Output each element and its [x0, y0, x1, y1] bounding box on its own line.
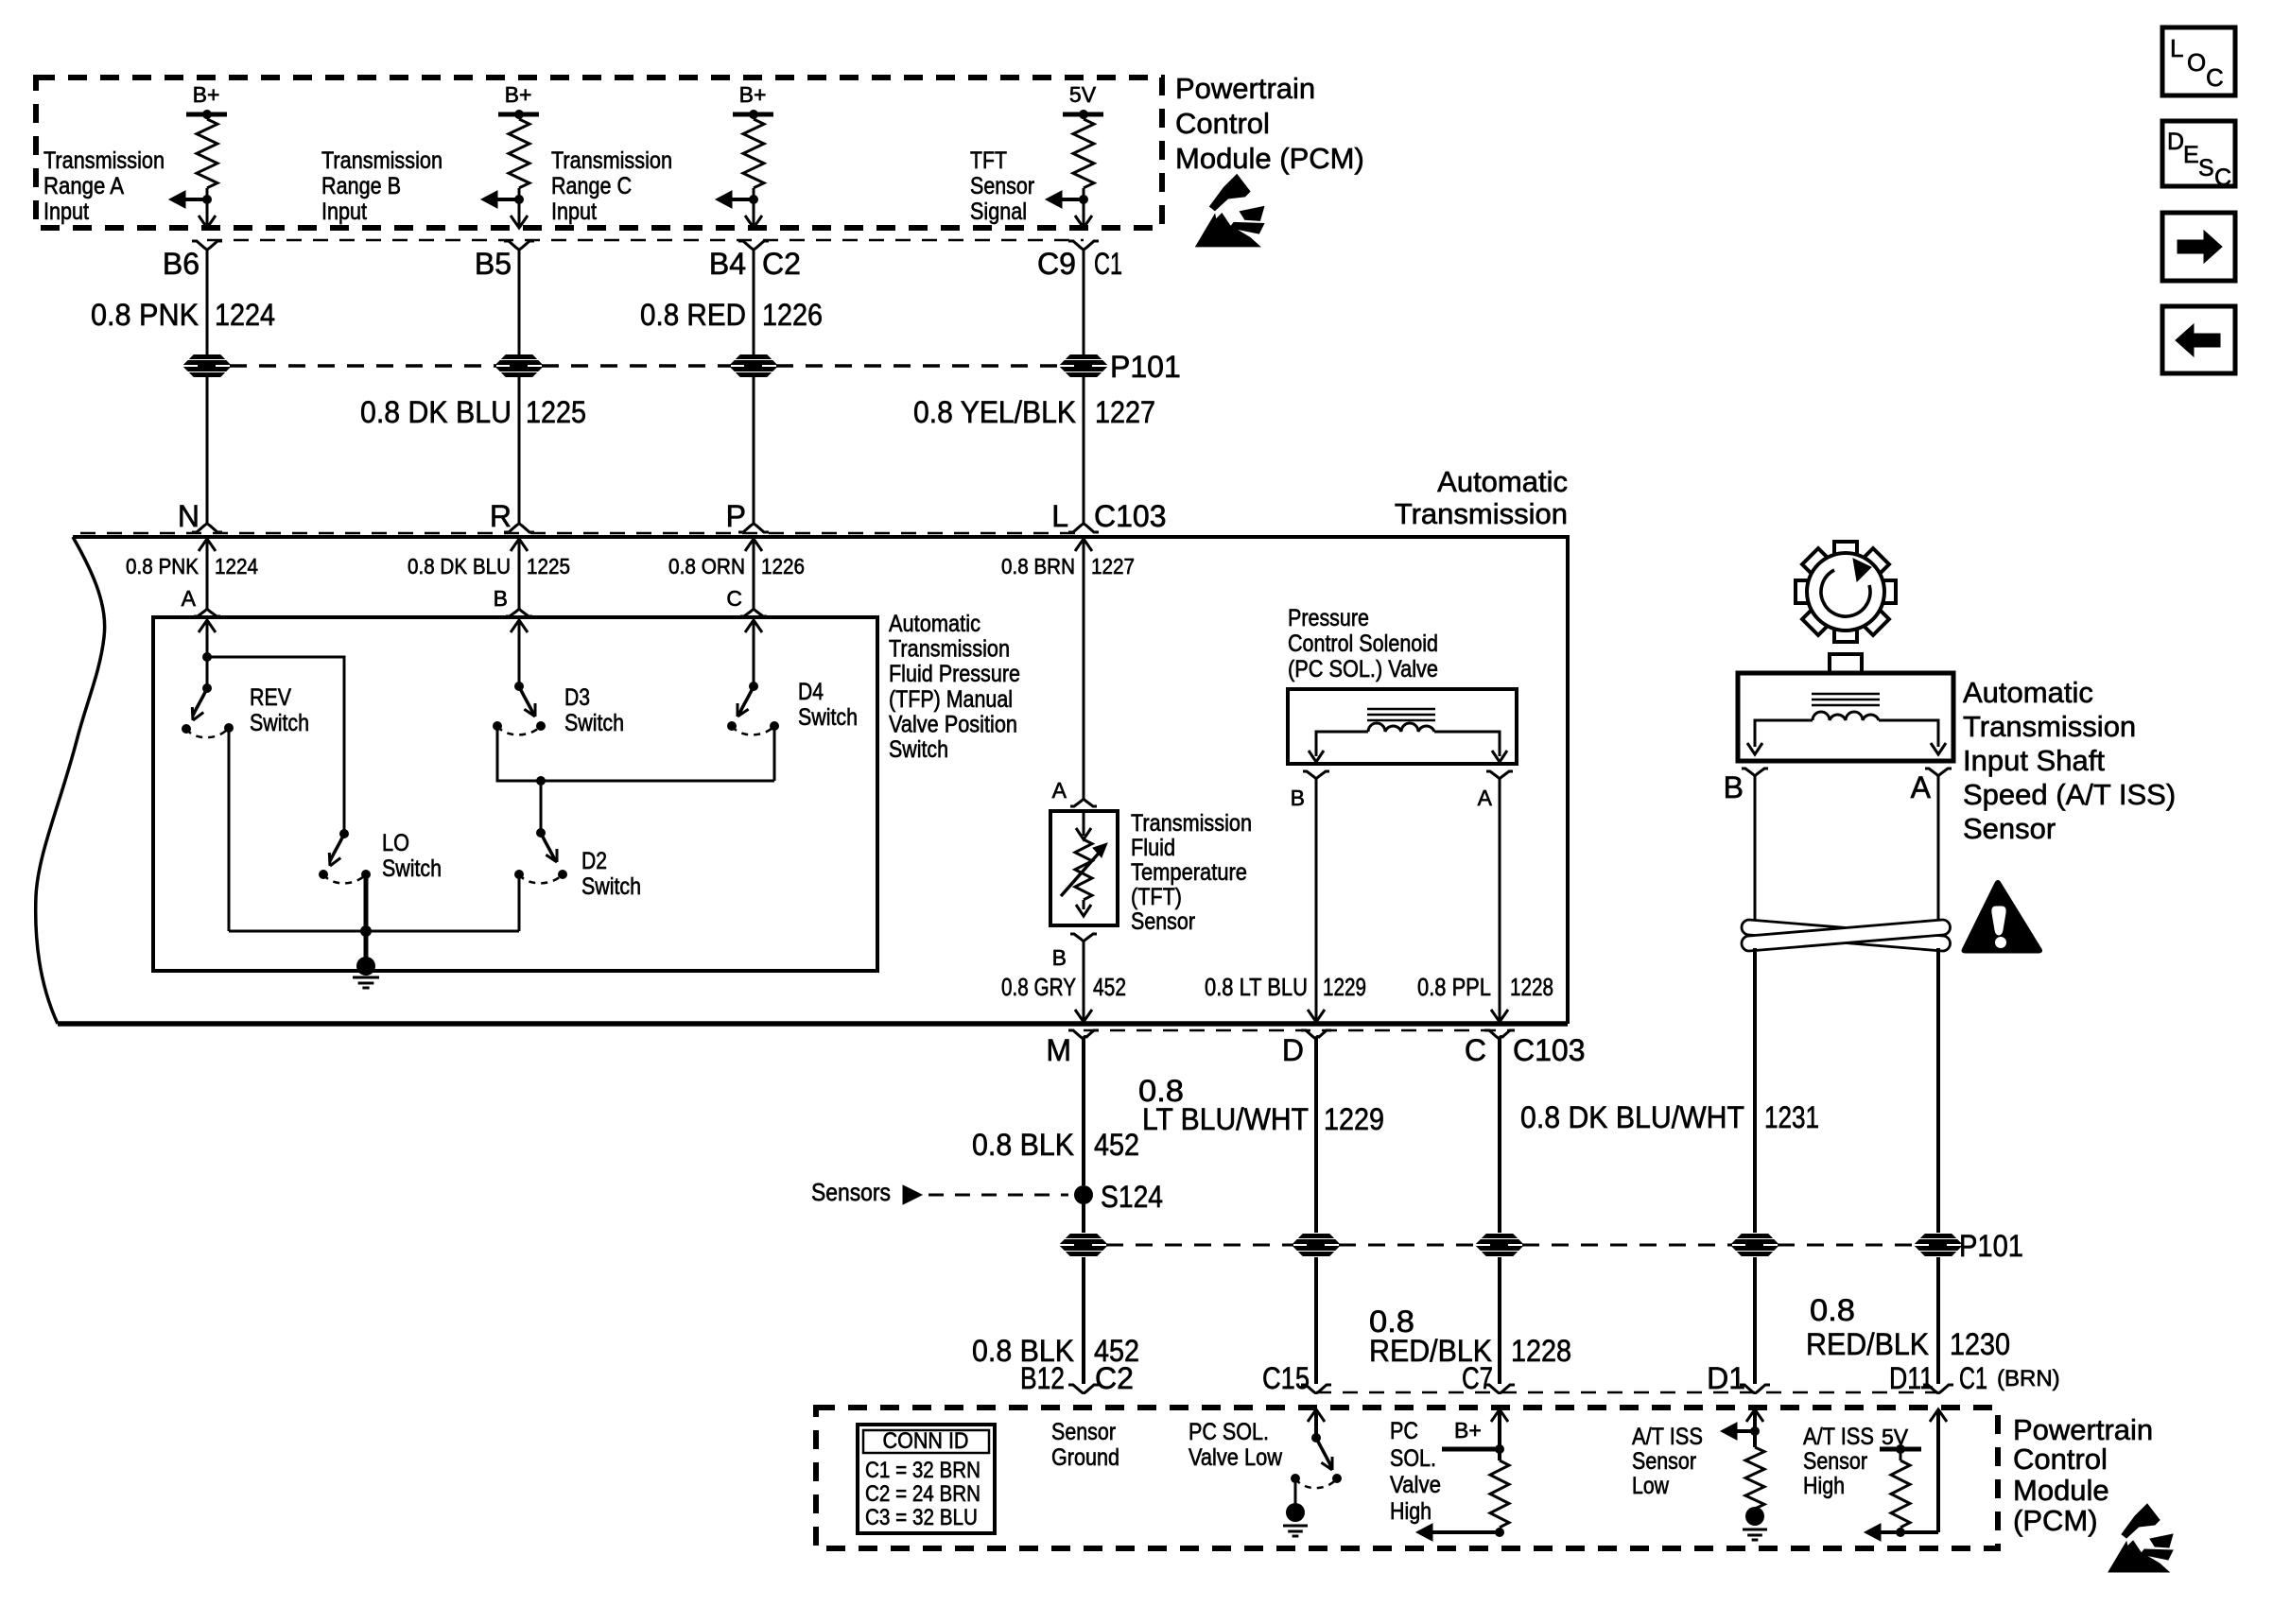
svg-text:Automatic: Automatic [889, 611, 980, 637]
svg-text:E: E [2183, 142, 2199, 168]
svg-text:C103: C103 [1513, 1033, 1586, 1067]
svg-text:A: A [1478, 786, 1493, 810]
pass-through connector row P101 (bottom) [1106, 1244, 1293, 1247]
svg-text:B6: B6 [163, 247, 200, 281]
svg-text:C: C [2214, 164, 2231, 191]
svg-text:Switch: Switch [564, 710, 624, 736]
svg-text:B+: B+ [1454, 1418, 1482, 1443]
svg-text:0.8: 0.8 [1810, 1293, 1855, 1327]
svg-text:Module (PCM): Module (PCM) [1175, 142, 1364, 175]
connector fork at switch box [194, 609, 220, 616]
previous arrow icon [2162, 306, 2235, 373]
wire Transmission Range A to pin [206, 199, 209, 226]
wire 1225 DK BLU segment B5-P101 [518, 251, 521, 355]
svg-text:Input Shaft: Input Shaft [1963, 744, 2105, 777]
svg-text:Fluid: Fluid [1131, 835, 1175, 861]
svg-text:Transmission: Transmission [889, 636, 1010, 663]
wire 1224 PNK segment B6-P101 [206, 251, 209, 355]
svg-text:0.8 BRN: 0.8 BRN [1001, 554, 1075, 579]
svg-text:Transmission: Transmission [43, 147, 165, 174]
svg-text:452: 452 [1093, 973, 1126, 1001]
resistor TFT Sensor Signal input pull-up [1083, 114, 1085, 119]
TFP manual valve position switch box [153, 617, 877, 971]
inline connector P101 terminal (bottom) [1061, 1235, 1106, 1256]
svg-text:C: C [726, 586, 742, 611]
node TFT Sensor Signal sense [1079, 195, 1088, 204]
torn edge of Automatic Transmission box [36, 537, 105, 1024]
connector fork below ISS sensor [1925, 769, 1952, 776]
svg-text:Switch: Switch [382, 855, 442, 882]
svg-text:Control: Control [2013, 1443, 2108, 1476]
svg-text:Low: Low [1632, 1473, 1670, 1499]
svg-text:0.8 YEL/BLK: 0.8 YEL/BLK [913, 395, 1076, 429]
wire 1225 segment P101-C103 [518, 376, 521, 525]
svg-text:Pressure: Pressure [1288, 605, 1369, 631]
wire 452 BLK segment S124-P101 [1082, 1195, 1085, 1233]
LOC icon [2162, 27, 2235, 95]
svg-text:REV: REV [250, 684, 291, 711]
Automatic Transmission enclosure [73, 537, 1568, 1024]
connector line PCM C2/C1 interface [207, 239, 1084, 242]
svg-text:1225: 1225 [527, 554, 570, 579]
wire 452 segment P101-B12 [1082, 1257, 1085, 1384]
svg-text:1229: 1229 [1324, 1102, 1384, 1136]
svg-text:1228: 1228 [1510, 973, 1553, 1001]
connector terminal fork (PCM bottom) [1301, 1385, 1331, 1394]
connector fork C103 bottom [1068, 1030, 1099, 1042]
twisted pair symbol [1742, 920, 1951, 951]
svg-text:(TFT): (TFT) [1131, 884, 1182, 910]
wire D3 contact down [497, 726, 774, 781]
svg-text:Sensor: Sensor [970, 173, 1034, 199]
svg-text:Sensor: Sensor [1803, 1448, 1867, 1475]
resistor Transmission Range B input pull-up [518, 114, 521, 119]
internal signal arrow TFT Sensor Signal [1062, 198, 1084, 201]
inline connector P101 terminal (bottom) [1732, 1235, 1778, 1256]
wire C7 into PCM [1491, 1409, 1508, 1422]
ESD sensitivity symbol (top) [1196, 175, 1264, 247]
connector fork at switch box [740, 609, 767, 616]
connector fork at switch box [506, 609, 532, 616]
svg-text:D: D [2167, 129, 2184, 155]
A/T ISS sensor body [1738, 673, 1953, 761]
svg-text:N: N [178, 499, 200, 533]
connector terminal fork (PCM bottom) [1068, 1385, 1099, 1394]
node A branch [202, 652, 212, 662]
PCM top dashed box [36, 78, 1162, 228]
svg-text:C3 = 32 BLU: C3 = 32 BLU [865, 1505, 978, 1530]
wire 1228 segment P101-C7 [1498, 1257, 1501, 1384]
svg-text:C15: C15 [1262, 1361, 1310, 1395]
A/T ISS sensor mounting tab [1830, 654, 1862, 673]
wire 1227 entering transmission [1075, 539, 1092, 551]
svg-text:B: B [494, 586, 508, 611]
svg-text:0.8 PNK: 0.8 PNK [91, 298, 199, 332]
svg-text:Transmission: Transmission [1131, 810, 1252, 837]
svg-text:Sensor: Sensor [1131, 908, 1195, 935]
svg-text:Valve Low: Valve Low [1189, 1444, 1283, 1471]
svg-text:B5: B5 [475, 247, 512, 281]
svg-text:(BRN): (BRN) [1997, 1366, 2060, 1391]
TFT sensor (thermistor) [1050, 811, 1118, 925]
svg-text:P101: P101 [1110, 350, 1181, 384]
wire D4 contact down [773, 726, 776, 781]
svg-text:S: S [2198, 155, 2214, 181]
svg-text:Input: Input [551, 199, 597, 225]
svg-text:Speed (A/T ISS): Speed (A/T ISS) [1963, 778, 2176, 811]
svg-text:Fluid Pressure: Fluid Pressure [889, 661, 1020, 687]
connector terminal fork C103 [1068, 521, 1099, 532]
svg-text:L: L [2170, 34, 2183, 62]
svg-text:0.8 ORN: 0.8 ORN [668, 554, 745, 579]
wire C inside switch box [745, 620, 762, 632]
svg-text:0.8 BLK: 0.8 BLK [972, 1128, 1074, 1162]
connector fork C103 bottom [1301, 1030, 1331, 1042]
inline connector P101 terminal (bottom) [1916, 1235, 1961, 1256]
svg-text:1225: 1225 [526, 395, 586, 429]
PCM bottom dashed box [816, 1408, 1998, 1548]
svg-text:Switch: Switch [250, 710, 309, 736]
CONN ID table [858, 1425, 995, 1533]
node B+ junction [202, 110, 212, 119]
svg-text:452: 452 [1094, 1128, 1139, 1162]
svg-text:B12: B12 [1020, 1361, 1065, 1395]
svg-text:C1: C1 [1094, 247, 1122, 281]
internal signal arrow Transmission Range B [497, 198, 519, 201]
svg-text:1231: 1231 [1764, 1100, 1819, 1134]
connector line C103 (top) [80, 532, 1084, 535]
svg-text:C9: C9 [1037, 247, 1076, 281]
svg-text:B: B [1291, 786, 1305, 810]
svg-text:C1: C1 [1959, 1361, 1987, 1395]
svg-text:Switch: Switch [798, 704, 858, 731]
node Transmission Range B sense [514, 195, 524, 204]
wire ISS A below twist [1936, 948, 1940, 1233]
svg-text:Automatic: Automatic [1437, 465, 1568, 498]
wire branch A to LO switch [207, 657, 344, 834]
D3 switch [514, 682, 524, 691]
svg-text:Input: Input [321, 199, 367, 225]
svg-text:B+: B+ [505, 82, 532, 107]
wire 1228 segment P101-C15 [1314, 1257, 1318, 1384]
internal signal arrow Transmission Range A [185, 198, 207, 201]
wire 1226 segment P101-C103 [753, 376, 755, 525]
svg-text:O: O [2187, 48, 2206, 77]
svg-text:(PC SOL.) Valve: (PC SOL.) Valve [1288, 656, 1438, 682]
connector terminal fork [192, 241, 222, 252]
PC solenoid leads [1316, 732, 1368, 756]
wire Transmission Range C to pin [753, 199, 755, 226]
inline connector P101 terminal [496, 355, 542, 377]
B+ feed bar [1442, 1447, 1500, 1452]
svg-text:Signal: Signal [970, 199, 1027, 225]
splice S124 [1074, 1185, 1093, 1204]
wire 452 BLK segment M-S124 [1082, 1037, 1085, 1185]
wire B inside switch box [511, 620, 528, 632]
5V feed bar [1880, 1447, 1921, 1452]
wire ISS B down [1754, 776, 1757, 922]
node 5V junction [1079, 110, 1088, 119]
svg-text:Transmission: Transmission [551, 147, 672, 174]
internal arrow PC SOL high [1430, 1530, 1500, 1534]
svg-text:Control: Control [1175, 107, 1270, 140]
node D3/D4 link [536, 776, 546, 786]
ground (ISS low) [1754, 1509, 1757, 1512]
svg-text:S124: S124 [1101, 1180, 1163, 1214]
svg-text:0.8 RED: 0.8 RED [640, 298, 746, 332]
connector fork below PC solenoid [1303, 771, 1329, 779]
svg-text:C: C [1465, 1033, 1486, 1067]
wire 1224 entering transmission [199, 539, 216, 551]
svg-text:Valve Position: Valve Position [889, 711, 1017, 737]
next arrow icon [2162, 213, 2235, 281]
internal arrow ISS low [1750, 1426, 1760, 1436]
node B+ junction [749, 110, 758, 119]
svg-text:0.8 DK BLU/WHT: 0.8 DK BLU/WHT [1520, 1100, 1744, 1134]
connector terminal fork [504, 241, 534, 252]
wire D11 to resistor [1900, 1530, 1938, 1534]
connector line C103 (bottom) [1084, 1029, 1513, 1032]
PC solenoid core [1367, 708, 1435, 711]
wire 1227 segment P101-C103 [1083, 376, 1085, 525]
svg-text:0.8 LT BLU: 0.8 LT BLU [1205, 973, 1308, 1001]
svg-text:0.8 PNK: 0.8 PNK [126, 554, 200, 579]
wire 1229 segment D-P101 [1314, 1037, 1318, 1233]
wire 1228 PPL inside transmission [1499, 779, 1501, 1020]
svg-text:1227: 1227 [1091, 554, 1135, 579]
svg-text:A: A [182, 586, 197, 611]
svg-text:LO: LO [382, 830, 409, 856]
svg-text:D2: D2 [581, 848, 607, 874]
svg-text:C1 = 32 BRN: C1 = 32 BRN [865, 1458, 980, 1483]
svg-text:Switch: Switch [889, 736, 948, 763]
svg-text:High: High [1390, 1498, 1431, 1525]
wire LO contact to ground [364, 874, 369, 964]
DESC icon [2162, 121, 2235, 186]
ground junction node [360, 925, 372, 937]
svg-text:Transmission: Transmission [1963, 710, 2136, 743]
LO switch [339, 829, 349, 838]
svg-text:D: D [1282, 1033, 1304, 1067]
A/T ISS reluctor gear icon [1796, 542, 1896, 642]
svg-text:0.8 GRY: 0.8 GRY [1001, 973, 1076, 1001]
svg-text:1226: 1226 [761, 554, 805, 579]
svg-text:D3: D3 [564, 684, 590, 711]
wire A to REV pivot [206, 657, 209, 688]
connector terminal fork (PCM bottom) [1484, 1385, 1515, 1394]
svg-text:(PCM): (PCM) [2013, 1504, 2098, 1537]
svg-text:1224: 1224 [215, 554, 258, 579]
wire 1224 segment P101-C103 [206, 376, 209, 525]
svg-text:(TFP) Manual: (TFP) Manual [889, 686, 1013, 713]
wire 1227 YEL/BLK segment C9-P101 [1083, 251, 1085, 355]
ISS coil leads [1755, 720, 1813, 747]
wire TFT Sensor Signal to pin [1083, 199, 1085, 226]
svg-text:5V: 5V [1069, 82, 1097, 107]
connector line PCM bottom interface [1316, 1391, 1938, 1394]
svg-text:RED/BLK: RED/BLK [1806, 1327, 1929, 1361]
svg-text:LT BLU/WHT: LT BLU/WHT [1142, 1102, 1309, 1136]
svg-text:0.8 DK BLU: 0.8 DK BLU [408, 554, 511, 579]
node Transmission Range A sense [202, 195, 212, 204]
svg-text:Range B: Range B [321, 173, 401, 199]
wire 1230 segment P101-D1 [1753, 1257, 1757, 1384]
svg-text:Sensor: Sensor [1963, 812, 2056, 845]
ISS pickup coil [1813, 712, 1879, 720]
svg-text:C2: C2 [762, 247, 801, 281]
wire 1225 entering transmission [511, 539, 528, 551]
connector fork below PC solenoid [1486, 771, 1513, 779]
svg-text:B: B [1724, 770, 1744, 804]
svg-text:PC SOL.: PC SOL. [1189, 1419, 1269, 1445]
svg-text:Module: Module [2013, 1474, 2109, 1507]
ESD sensitivity symbol (bottom) [2108, 1504, 2173, 1572]
svg-text:C7: C7 [1462, 1361, 1493, 1395]
chassis ground (switch common) [356, 957, 375, 976]
svg-text:PC: PC [1390, 1418, 1418, 1444]
svg-text:A: A [1052, 778, 1067, 803]
svg-text:1229: 1229 [1323, 973, 1366, 1001]
wire 1226 entering transmission [745, 539, 762, 551]
svg-text:Range C: Range C [551, 173, 632, 199]
svg-text:Sensors: Sensors [811, 1178, 891, 1206]
svg-text:5V: 5V [1882, 1425, 1909, 1449]
wire 1228 segment C-P101 [1498, 1037, 1501, 1233]
resistor ISS low [1745, 1447, 1764, 1509]
connector terminal fork C103 [192, 521, 222, 532]
svg-text:R: R [490, 499, 512, 533]
svg-text:TFT: TFT [970, 147, 1007, 174]
svg-text:High: High [1803, 1473, 1845, 1499]
wire REV contact down [228, 728, 231, 931]
svg-text:Automatic: Automatic [1963, 676, 2093, 709]
internal arrow ISS high [1878, 1530, 1900, 1534]
resistor ISS high [1900, 1449, 1902, 1460]
svg-text:1226: 1226 [762, 298, 823, 332]
svg-text:Range A: Range A [43, 173, 124, 199]
svg-text:M: M [1046, 1033, 1071, 1067]
inline connector P101 terminal [1061, 355, 1106, 377]
svg-text:Temperature: Temperature [1131, 859, 1247, 886]
svg-text:P101: P101 [1959, 1229, 2023, 1263]
internal signal arrow Transmission Range C [732, 198, 754, 201]
node B+ junction [514, 110, 524, 119]
svg-text:Transmission: Transmission [1395, 497, 1568, 530]
svg-text:Input: Input [43, 199, 89, 225]
svg-text:B: B [1052, 945, 1067, 970]
wire A inside switch box [199, 620, 216, 632]
svg-text:0.8 PPL: 0.8 PPL [1417, 973, 1491, 1001]
warning triangle [1962, 881, 2042, 954]
svg-text:A/T ISS: A/T ISS [1632, 1424, 1703, 1450]
wire ISS A down [1937, 776, 1940, 922]
svg-text:1230: 1230 [1950, 1327, 2010, 1361]
connector terminal fork (PCM bottom) [1923, 1385, 1953, 1394]
inline connector P101 terminal (bottom) [1477, 1235, 1522, 1256]
svg-text:C: C [2206, 63, 2224, 92]
svg-text:Valve: Valve [1390, 1472, 1441, 1498]
ground (PC SOL low) [1294, 1478, 1297, 1506]
svg-text:C103: C103 [1094, 499, 1167, 533]
svg-text:1224: 1224 [215, 298, 275, 332]
PC solenoid coil [1368, 723, 1434, 732]
wire D1 into PCM [1746, 1409, 1763, 1422]
pass-through connector row P101 (top) [230, 364, 496, 368]
wire Transmission Range B to pin [518, 199, 521, 226]
REV switch [202, 683, 212, 693]
resistor Transmission Range C input pull-up [753, 114, 755, 119]
svg-text:1228: 1228 [1511, 1334, 1571, 1368]
connector fork C103 bottom [1484, 1030, 1515, 1042]
svg-text:Sensor: Sensor [1051, 1419, 1116, 1445]
Pressure Control Solenoid (PC SOL.) Valve [1288, 689, 1517, 764]
connector terminal fork C103 [738, 521, 769, 532]
svg-text:B4: B4 [709, 247, 746, 281]
svg-text:Powertrain: Powertrain [1175, 72, 1315, 105]
connector terminal fork C103 [504, 521, 534, 532]
svg-text:A/T ISS: A/T ISS [1803, 1424, 1874, 1450]
wire 452 GRY inside transmission [1083, 942, 1085, 1020]
svg-text:P: P [726, 499, 746, 533]
inline connector P101 terminal [184, 355, 230, 377]
svg-text:Transmission: Transmission [321, 147, 442, 174]
common switch return wire [229, 930, 519, 933]
svg-text:Switch: Switch [581, 873, 641, 900]
svg-text:B+: B+ [739, 82, 767, 107]
svg-text:B+: B+ [193, 82, 220, 107]
Automatic Transmission enclosure bottom edge [58, 1021, 1568, 1027]
inline connector P101 terminal (bottom) [1293, 1235, 1339, 1256]
svg-text:C2 = 24 BRN: C2 = 24 BRN [865, 1481, 980, 1507]
D2 switch [536, 828, 546, 838]
inline connector P101 terminal [731, 355, 776, 377]
svg-text:L: L [1051, 499, 1068, 533]
svg-text:Control Solenoid: Control Solenoid [1288, 631, 1438, 657]
resistor Transmission Range A input pull-up [206, 114, 209, 119]
svg-text:1227: 1227 [1095, 395, 1155, 429]
connector fork below TFT [1070, 934, 1097, 942]
svg-text:0.8 DK BLU: 0.8 DK BLU [360, 395, 512, 429]
wire D2 contact down [518, 874, 521, 931]
node Transmission Range C sense [749, 195, 758, 204]
ISS core laminations [1812, 693, 1880, 696]
connector fork below ISS sensor [1742, 769, 1768, 776]
svg-text:C2: C2 [1095, 1361, 1134, 1395]
wire 1227 to TFT sensor [1070, 799, 1097, 806]
svg-text:A: A [1911, 770, 1932, 804]
svg-text:D4: D4 [798, 679, 824, 705]
connector terminal fork [1068, 241, 1099, 252]
wire ISS B below twist [1753, 948, 1757, 1233]
svg-text:D1: D1 [1707, 1361, 1745, 1395]
connector terminal fork [738, 241, 769, 252]
wire link to D2 [540, 781, 543, 833]
connector terminal fork (PCM bottom) [1740, 1385, 1770, 1394]
svg-text:Ground: Ground [1051, 1444, 1119, 1471]
D4 switch [749, 682, 758, 691]
resistor PC SOL valve high [1490, 1460, 1509, 1528]
PC SOL valve low driver switch [1308, 1409, 1325, 1422]
svg-text:Sensor: Sensor [1632, 1448, 1696, 1475]
wire 1229 LT BLU inside transmission [1315, 779, 1318, 1020]
svg-text:Powertrain: Powertrain [2013, 1413, 2153, 1446]
svg-text:CONN ID: CONN ID [883, 1428, 969, 1454]
wire 1226 RED segment B4-P101 [753, 251, 755, 355]
svg-text:SOL.: SOL. [1390, 1445, 1436, 1472]
svg-text:D11: D11 [1889, 1361, 1934, 1395]
wire 1230 segment P101-D11 [1936, 1257, 1940, 1384]
